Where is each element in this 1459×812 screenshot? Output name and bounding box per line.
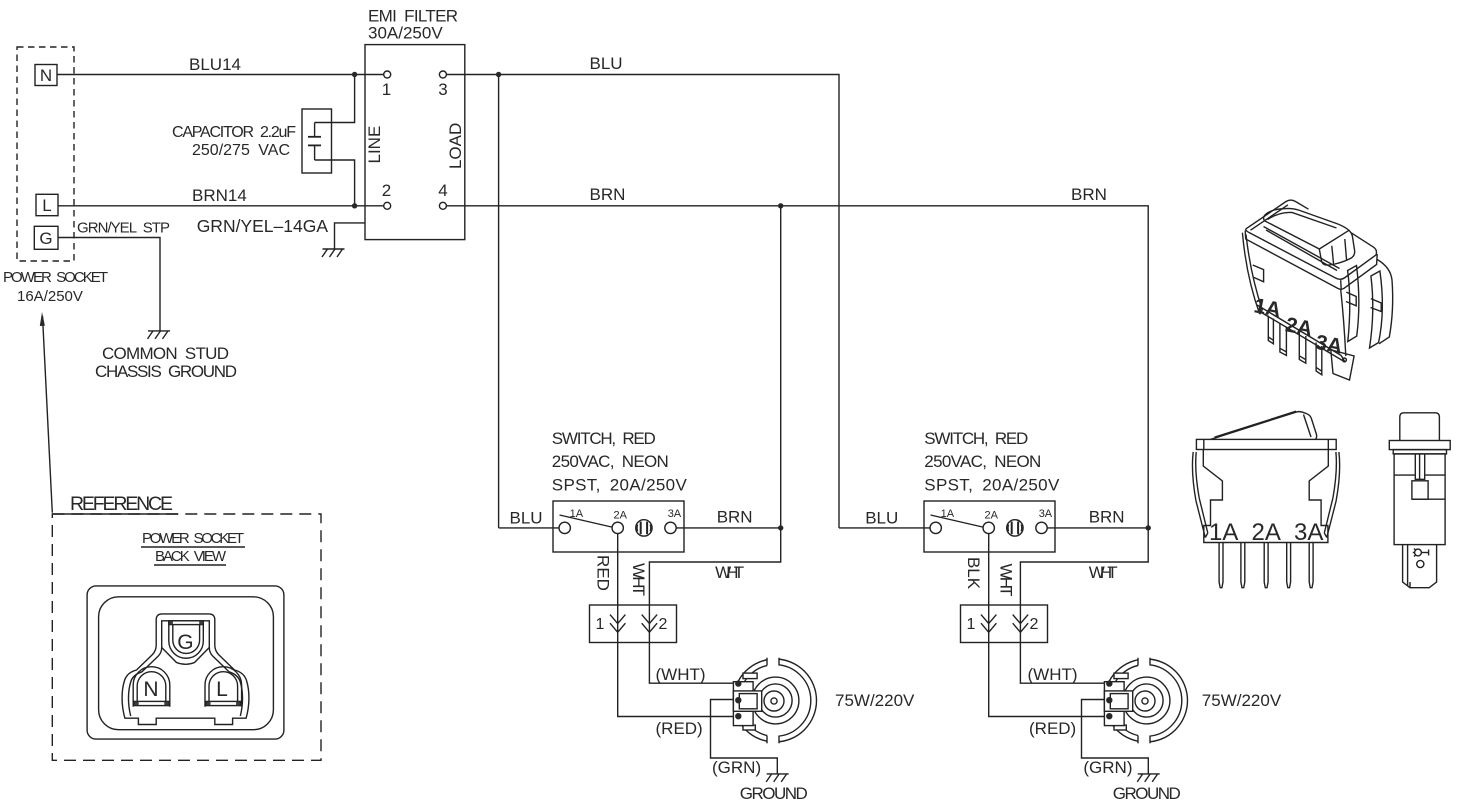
- svg-text:CHASSIS GROUND: CHASSIS GROUND: [95, 362, 237, 381]
- connector P1 pin 2 wire and chevron: [648, 605, 650, 643]
- svg-text:N: N: [143, 678, 158, 701]
- svg-text:BRN: BRN: [590, 185, 626, 204]
- svg-text:GRN/YEL STP: GRN/YEL STP: [77, 220, 170, 237]
- lamp holder side view center stem: [1415, 454, 1424, 479]
- EMI filter pin 4: [439, 202, 446, 209]
- switch S2 blade: [931, 515, 983, 527]
- rocker button seam lines: [1332, 246, 1334, 265]
- rocker button fold line: [1319, 230, 1349, 249]
- svg-text:3: 3: [438, 80, 447, 99]
- svg-text:BLU14: BLU14: [189, 55, 241, 74]
- svg-text:L: L: [42, 196, 51, 215]
- node junction at S2 output: [1146, 525, 1151, 530]
- rocker switch side view left wing: [1192, 452, 1205, 538]
- svg-text:SWITCH, RED: SWITCH, RED: [552, 429, 656, 448]
- wire WHT connector P2 to lamp DS2: [1020, 643, 1104, 684]
- svg-text:G: G: [177, 631, 193, 654]
- rocker switch side view pin 4: [1287, 543, 1291, 588]
- arrow from reference box to power socket label: [43, 316, 53, 513]
- rocker switch 3D body right silhouette: [1377, 260, 1392, 344]
- svg-text:GROUND: GROUND: [740, 784, 808, 803]
- svg-text:2: 2: [659, 616, 668, 633]
- svg-text:BRN: BRN: [717, 508, 753, 527]
- ground at EMI filter: [322, 249, 345, 257]
- lamp holder side view lower part: [1403, 545, 1437, 588]
- svg-text:COMMON STUD: COMMON STUD: [102, 344, 229, 363]
- lamp holder side view cap: [1400, 413, 1440, 441]
- rocker switch 3D right strap B: [1370, 271, 1383, 348]
- rocker switch 3D body bottom band: [1257, 305, 1341, 356]
- socket insert outer contour: [122, 614, 249, 725]
- wire BLU14 from N to EMI filter pin 1: [57, 74, 384, 76]
- svg-text:SPST, 20A/250V: SPST, 20A/250V: [924, 476, 1060, 495]
- svg-text:CAPACITOR 2.2uF: CAPACITOR 2.2uF: [172, 124, 296, 141]
- svg-text:WHT: WHT: [997, 564, 1016, 597]
- lamp holder side view bulb icon: [1415, 549, 1422, 556]
- svg-text:BLU: BLU: [590, 54, 623, 73]
- rocker switch 3D right strap A: [1348, 266, 1359, 342]
- wire S1 3A to BRN junction: [676, 527, 781, 529]
- svg-text:BACK VIEW: BACK VIEW: [155, 548, 227, 565]
- svg-text:4: 4: [438, 181, 447, 200]
- svg-text:G: G: [39, 229, 52, 248]
- svg-text:(GRN): (GRN): [1083, 758, 1132, 777]
- wire BLU from pin 3 to switch feeds: [446, 75, 839, 528]
- svg-text:3A: 3A: [668, 508, 682, 520]
- rocker switch 3D view rocker button top face: [1264, 208, 1355, 265]
- wire BRN drop to switch S1: [780, 206, 782, 528]
- svg-text:BLU: BLU: [510, 509, 543, 528]
- EMI filter pin 1: [384, 71, 391, 78]
- svg-text:2: 2: [1030, 616, 1039, 633]
- svg-text:BLU: BLU: [865, 509, 898, 528]
- svg-text:250/275 VAC: 250/275 VAC: [192, 142, 290, 159]
- rocker switch 3D view bezel opening edges: [1264, 227, 1340, 269]
- rocker switch 3D pin 1: [1268, 316, 1273, 344]
- rocker switch side view pin 1: [1219, 543, 1223, 588]
- ground at lamp DS2: [1137, 774, 1160, 782]
- EMI filter pin 3: [439, 71, 446, 78]
- switch S2 terminal 2A: [983, 522, 994, 533]
- svg-text:2A: 2A: [985, 510, 999, 522]
- wire GRN lamp DS1 to ground: [711, 700, 778, 774]
- wire RED connector P1 to lamp DS1: [618, 643, 734, 717]
- wire GRN/YEL-14GA from EMI filter to ground: [335, 223, 366, 249]
- svg-text:POWER SOCKET: POWER SOCKET: [142, 530, 244, 547]
- rocker switch 3D pin 4: [1316, 343, 1322, 375]
- connector P1 pin 1 wire and chevron: [617, 605, 619, 643]
- chassis ground common stud: [148, 331, 171, 339]
- node junction BRN feed: [778, 203, 783, 208]
- svg-text:1: 1: [382, 80, 391, 99]
- svg-text:(WHT): (WHT): [1028, 665, 1078, 684]
- rocker switch 3D pin 3: [1299, 333, 1306, 364]
- rocker button inner bevel: [1268, 212, 1337, 228]
- svg-text:2A: 2A: [1252, 519, 1281, 546]
- rocker switch 3D body left wing: [1242, 233, 1259, 314]
- switch S2 neon lamp: [1007, 520, 1023, 536]
- EMI filter FL1 box: [365, 45, 465, 240]
- socket back view inner face: [99, 597, 274, 730]
- ground at lamp DS1: [766, 774, 789, 782]
- connector P1 box: [590, 605, 677, 643]
- svg-text:WHT: WHT: [1089, 563, 1118, 582]
- svg-text:250VAC, NEON: 250VAC, NEON: [552, 452, 669, 471]
- wire RED connector P2 to lamp DS2: [989, 643, 1105, 717]
- rocker switch side view pin 2: [1241, 543, 1245, 588]
- wire BLU into S2: [839, 527, 930, 529]
- svg-text:1A: 1A: [1252, 294, 1283, 322]
- svg-text:RED: RED: [594, 555, 613, 591]
- rocker switch side view right wing: [1327, 452, 1340, 538]
- reference box dashed: [52, 514, 321, 760]
- switch S2 terminal 1A: [930, 522, 941, 533]
- node junction BLU feed: [496, 72, 501, 77]
- socket N pocket: [133, 667, 170, 707]
- switch S2 terminal 3A: [1036, 522, 1047, 533]
- svg-text:1A: 1A: [1209, 519, 1238, 546]
- svg-text:1: 1: [596, 616, 605, 633]
- wire S2 3A to BRN corner: [1047, 527, 1148, 529]
- svg-text:REFERENCE: REFERENCE: [70, 493, 173, 515]
- svg-text:SWITCH, RED: SWITCH, RED: [924, 429, 1028, 448]
- rocker switch side view pin 3: [1264, 543, 1268, 588]
- rocker switch 3D body left notch: [1253, 265, 1264, 282]
- terminal G: [34, 226, 58, 249]
- capacitor plates: [308, 136, 321, 138]
- svg-text:30A/250V: 30A/250V: [368, 24, 443, 43]
- rocker switch 3D view bezel top face: [1246, 200, 1309, 229]
- rocker switch 3D view bezel thickness: [1245, 231, 1377, 290]
- lamp holder side view body: [1394, 454, 1445, 545]
- wire WHT from junction to connector P2 pin 2: [1020, 528, 1148, 605]
- svg-text:WHT: WHT: [715, 563, 744, 582]
- svg-text:(RED): (RED): [1029, 719, 1076, 738]
- svg-text:75W/220V: 75W/220V: [1202, 691, 1282, 710]
- svg-text:GRN/YEL–14GA: GRN/YEL–14GA: [197, 216, 329, 236]
- socket G pocket: [169, 621, 204, 658]
- lamp holder side view indicator circle: [1417, 560, 1424, 567]
- node junction BRN at capacitor: [352, 203, 357, 208]
- svg-text:75W/220V: 75W/220V: [835, 691, 915, 710]
- node junction at S1 output: [778, 525, 783, 530]
- capacitor lead to BRN node: [315, 160, 355, 206]
- svg-text:1: 1: [967, 616, 976, 633]
- capacitor C1 2.2uF box: [302, 109, 332, 173]
- rocker switch side view body profile: [1203, 450, 1328, 543]
- socket L pocket: [205, 667, 242, 707]
- wire BLU drop to switch S1: [498, 75, 500, 528]
- svg-text:GROUND: GROUND: [1113, 784, 1181, 803]
- switch S1 terminal 2A: [612, 522, 623, 533]
- svg-text:(WHT): (WHT): [656, 665, 706, 684]
- svg-text:BRN: BRN: [1071, 185, 1107, 204]
- svg-text:2: 2: [382, 181, 391, 200]
- svg-text:(RED): (RED): [656, 719, 703, 738]
- svg-text:(GRN): (GRN): [712, 758, 761, 777]
- lamp holder side view inner slide: [1412, 481, 1428, 499]
- connector P2 box: [961, 605, 1048, 643]
- lamp DS2 rear view: [1104, 657, 1187, 744]
- bezel top face bevel line: [1251, 205, 1289, 230]
- rocker switch 3D body right front edge: [1341, 289, 1346, 356]
- svg-text:WHT: WHT: [629, 563, 648, 596]
- svg-text:2A: 2A: [614, 510, 628, 522]
- switch S1 terminal 1A: [559, 522, 570, 533]
- svg-text:L: L: [216, 678, 228, 701]
- EMI filter pin 2: [384, 202, 391, 209]
- connector P2 pin 2 wire and chevron: [1019, 605, 1021, 643]
- terminal L: [36, 194, 58, 215]
- lamp holder side view flange: [1389, 441, 1450, 450]
- switch S1 blade: [560, 515, 612, 527]
- power socket J1 dashed outline: [17, 47, 74, 261]
- wire GRN lamp DS2 to ground: [1082, 700, 1149, 774]
- svg-text:SPST, 20A/250V: SPST, 20A/250V: [552, 476, 688, 495]
- rocker switch 3D wide pin: [1331, 350, 1354, 380]
- wire BLU into S1: [499, 527, 559, 529]
- wire BRN from pin 4 to switch feeds: [446, 206, 1148, 528]
- connector P2 pin 1 wire and chevron: [988, 605, 990, 643]
- svg-text:3A: 3A: [1039, 508, 1053, 520]
- svg-text:BRN14: BRN14: [192, 186, 247, 205]
- svg-text:POWER SOCKET: POWER SOCKET: [3, 269, 108, 286]
- svg-text:LOAD: LOAD: [446, 123, 465, 169]
- rocker switch side view pin 5: [1309, 543, 1313, 588]
- node junction BLU at capacitor: [352, 72, 357, 77]
- wire BRN14 from L to EMI filter pin 2: [58, 205, 384, 207]
- wire BLK from S2 2A to connector P2 pin 1: [988, 534, 990, 605]
- rocker switch side view paddle: [1211, 412, 1317, 440]
- rocker switch 3D pin 2: [1280, 323, 1287, 356]
- wire GRN/YEL STP from G to common stud: [58, 238, 160, 331]
- wire RED from S1 2A to connector P1 pin 1: [617, 534, 619, 605]
- rocker switch side view mounting bar: [1196, 439, 1336, 449]
- svg-text:2A: 2A: [1284, 313, 1315, 341]
- svg-text:250VAC, NEON: 250VAC, NEON: [924, 452, 1041, 471]
- switch S1 terminal 3A: [665, 522, 676, 533]
- switch S1 neon lamp: [636, 520, 652, 536]
- switch S1 box: [553, 501, 684, 552]
- terminal N: [35, 65, 57, 86]
- capacitor lead to BLU node: [315, 75, 355, 123]
- lamp DS1 rear view: [733, 657, 816, 744]
- svg-text:16A/250V: 16A/250V: [17, 288, 83, 305]
- switch S2 box: [924, 501, 1055, 552]
- svg-text:3A: 3A: [1294, 519, 1323, 546]
- socket back view outer body: [87, 586, 284, 739]
- svg-text:BRN: BRN: [1089, 508, 1125, 527]
- svg-text:LINE: LINE: [365, 126, 384, 164]
- wire WHT connector P1 to lamp DS1: [649, 643, 733, 684]
- socket insert inner contour: [128, 621, 242, 716]
- svg-text:BLK: BLK: [964, 557, 983, 590]
- svg-text:N: N: [40, 66, 52, 85]
- wire WHT from junction to connector P1 pin 2: [649, 528, 780, 605]
- svg-text:3A: 3A: [1314, 331, 1345, 359]
